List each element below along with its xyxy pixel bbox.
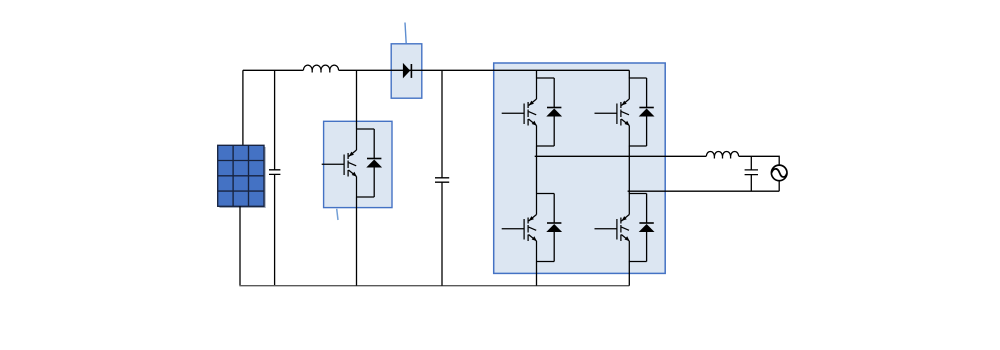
inductor L2 <box>706 151 738 158</box>
transistor Q1 (boost IGBT) <box>322 129 357 197</box>
capacitor C1 <box>269 170 280 286</box>
H-bridge inverter box <box>494 63 666 273</box>
wire: H-bridge left leg upper <box>536 70 538 78</box>
diode D6 (antiparallel with Q5) <box>629 194 655 262</box>
diode D4 (antiparallel with Q3) <box>629 78 655 146</box>
diode D5 (antiparallel with Q4) <box>537 194 563 262</box>
gate signal wire (blue) of D1 <box>405 23 406 44</box>
PV panel <box>218 145 266 208</box>
transistor Q5 (bottom-right IGBT) <box>595 194 630 262</box>
wire: H-bridge left leg lower <box>536 262 538 286</box>
wire: PV positive riser <box>243 70 275 170</box>
wire: boost switch branch top <box>356 70 358 129</box>
diode D3 (antiparallel with Q2) <box>537 78 563 146</box>
transistor Q3 (top-right IGBT) <box>595 78 630 146</box>
transistor Q2 (top-left IGBT) <box>502 78 537 146</box>
wire: bottom rail <box>239 285 629 287</box>
gate signal wire (blue) of Q1 <box>337 209 338 220</box>
capacitor C2 <box>435 178 449 286</box>
boost diode box <box>391 44 422 98</box>
wire: output line B <box>628 181 780 192</box>
wire: H-bridge left leg middle <box>536 146 538 194</box>
wire: H-bridge right leg lower <box>628 262 630 286</box>
diode D1 <box>403 63 412 79</box>
inductor L1 <box>303 65 338 72</box>
wire: H-bridge right leg upper <box>628 70 630 78</box>
wire: output line A <box>535 155 707 157</box>
wire: top rail left segment <box>243 69 304 71</box>
wire: PV negative riser <box>239 206 241 285</box>
transistor Q4 (bottom-left IGBT) <box>502 194 537 262</box>
diode D2 (antiparallel with Q1) <box>357 129 383 197</box>
wire: output line A after filter <box>739 156 780 165</box>
wire: top rail right segment <box>339 69 630 71</box>
wire: boost switch branch bottom <box>356 197 358 286</box>
wire: DC-link branch <box>441 70 443 178</box>
wire: H-bridge right leg middle <box>628 146 630 194</box>
capacitor C3 <box>745 156 758 191</box>
boost IGBT box <box>324 121 392 207</box>
AC source V1 <box>771 165 787 181</box>
